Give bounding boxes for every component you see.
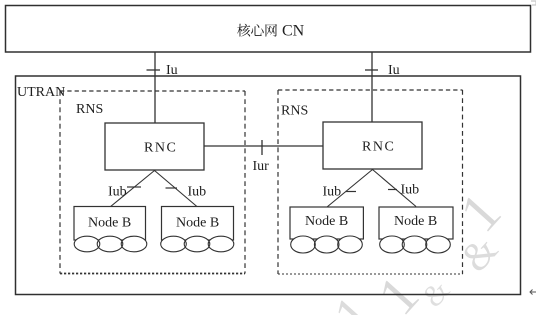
Iur wire bbox=[204, 145, 323, 147]
Iub tick RNS1 right bbox=[166, 187, 178, 189]
Iub tick RNS2 right bbox=[388, 189, 397, 191]
svg-text:Iur: Iur bbox=[253, 159, 270, 174]
cells of Node B 4 (3 ellipses) bbox=[380, 236, 451, 253]
label 核心网 CN bbox=[237, 23, 305, 40]
svg-text:CN: CN bbox=[282, 23, 305, 40]
svg-text:Node B: Node B bbox=[88, 216, 131, 231]
svg-text:Iu: Iu bbox=[166, 63, 178, 78]
RNC box 2 bbox=[323, 122, 422, 169]
svg-text:Node B: Node B bbox=[176, 216, 219, 231]
svg-text:Node B: Node B bbox=[394, 214, 437, 229]
svg-text:Iu: Iu bbox=[388, 63, 400, 78]
watermark bbox=[323, 182, 513, 315]
Iu tick left bbox=[147, 69, 161, 71]
Iub wire RNS1 left bbox=[110, 171, 155, 208]
Iub wire RNS2 right bbox=[373, 170, 417, 207]
Node B box 1 (RNS1) bbox=[74, 207, 146, 241]
Iu wire left bbox=[154, 52, 156, 123]
RNS box 2 (dashed) bbox=[278, 90, 463, 274]
svg-text:RNC: RNC bbox=[362, 140, 395, 155]
svg-text:Iub: Iub bbox=[108, 185, 127, 200]
svg-text:Node B: Node B bbox=[305, 214, 348, 229]
RNC box 1 bbox=[105, 123, 204, 170]
cells of Node B 2 (3 ellipses) bbox=[161, 236, 234, 252]
Iu wire right bbox=[371, 52, 373, 122]
svg-text:RNC: RNC bbox=[144, 141, 177, 156]
Node B box 1 (RNS2) bbox=[290, 207, 363, 239]
svg-text:Iub: Iub bbox=[401, 183, 420, 198]
svg-text:Iub: Iub bbox=[188, 185, 207, 200]
UTRAN box bbox=[16, 76, 521, 295]
cells of Node B 3 (3 ellipses) bbox=[291, 236, 363, 253]
svg-text:RNS: RNS bbox=[281, 104, 308, 119]
cursor arrow mark bbox=[530, 290, 536, 295]
Iub wire RNS1 right bbox=[155, 171, 198, 208]
Iub tick RNS2 left bbox=[346, 191, 357, 193]
Iub wire RNS2 left bbox=[327, 170, 373, 208]
corner mark bbox=[531, 1, 536, 5]
CN box bbox=[6, 6, 531, 53]
cells of Node B 1 (3 ellipses) bbox=[74, 236, 147, 252]
Node B box 2 (RNS2) bbox=[379, 207, 453, 239]
RNS box 1 (dashed) bbox=[60, 91, 245, 274]
Node B box 2 (RNS1) bbox=[162, 207, 234, 241]
Iur tick bbox=[261, 140, 263, 155]
Iu tick right bbox=[365, 69, 378, 71]
Iub tick RNS1 left bbox=[127, 186, 141, 188]
svg-text:UTRAN: UTRAN bbox=[17, 85, 65, 100]
svg-text:Iub: Iub bbox=[323, 185, 342, 200]
svg-text:RNS: RNS bbox=[76, 102, 103, 117]
